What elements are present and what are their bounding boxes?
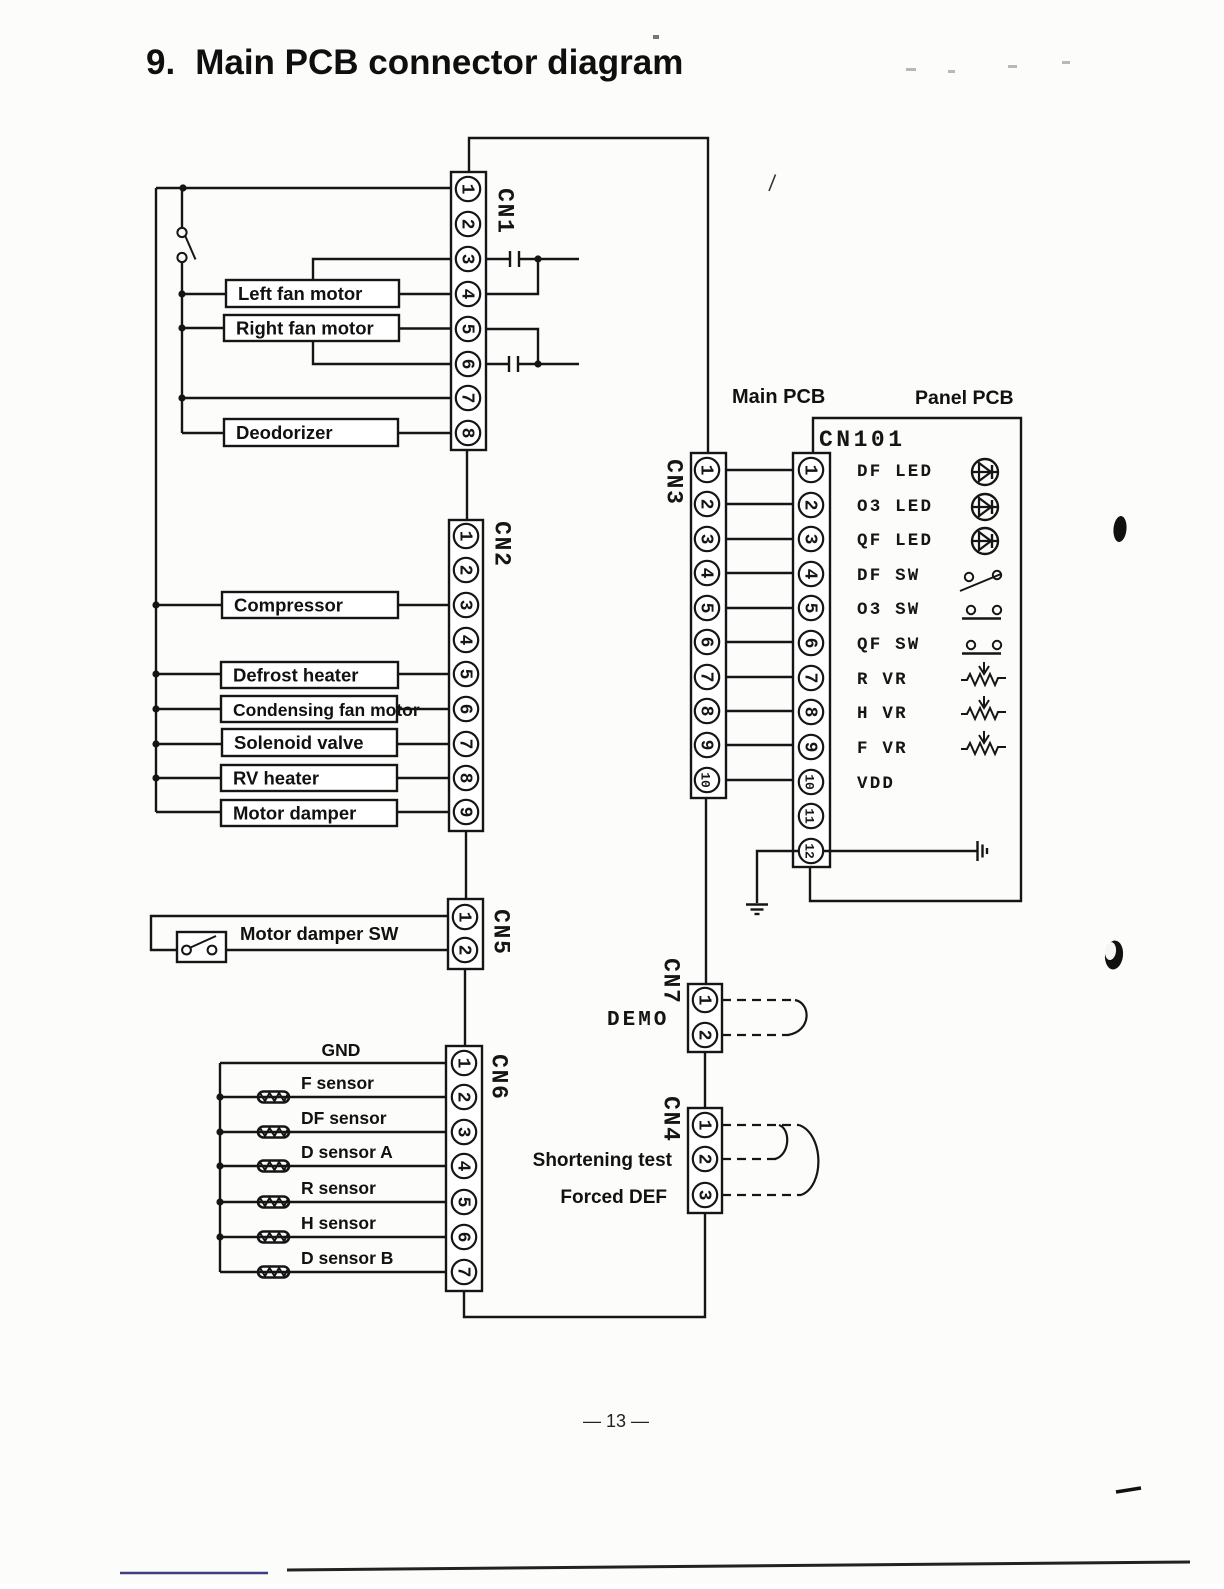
svg-text:1: 1	[694, 995, 714, 1006]
svg-text:N: N	[658, 974, 684, 988]
wire CN3 pin8 to CN101 pin8	[726, 710, 793, 712]
load box Deodorizer	[224, 419, 398, 446]
svg-text:6: 6	[486, 1085, 512, 1099]
wire left bus vertical	[155, 188, 157, 812]
connector CN5	[448, 899, 483, 969]
pin 12 of CN101	[799, 839, 823, 863]
svg-text:3: 3	[453, 1127, 473, 1138]
svg-text:3: 3	[800, 534, 820, 545]
pin 6 of CN3	[695, 630, 719, 654]
svg-text:D sensor A: D sensor A	[301, 1142, 393, 1162]
svg-text:7: 7	[455, 739, 475, 750]
svg-text:RV heater: RV heater	[233, 768, 319, 789]
pin 1 of CN101	[799, 458, 823, 482]
wire CN101 pin12 to right ground	[824, 850, 977, 852]
svg-text:C: C	[486, 1054, 512, 1068]
svg-text:1: 1	[455, 531, 475, 542]
load box Left fan motor	[226, 280, 399, 307]
svg-text:DF SW: DF SW	[857, 566, 921, 586]
svg-text:N: N	[486, 1070, 512, 1084]
wire right fan to CN1 pin5	[399, 327, 451, 329]
wire bus to Defrost heater	[156, 673, 221, 675]
pin 10 of CN101	[799, 770, 823, 794]
capacitor C1	[510, 251, 519, 267]
wire bus to CN1 pin7	[182, 397, 451, 399]
wire bus to DF sensor thermistor	[220, 1131, 446, 1133]
pin 7 of CN6	[452, 1260, 476, 1284]
junction Condensing fan motor tap	[152, 705, 159, 712]
svg-text:9.Main PCB connector diagram: 9.Main PCB connector diagram	[146, 43, 683, 82]
junction pin7 tap	[178, 394, 185, 401]
load box Condensing fan motor	[221, 696, 420, 722]
jumper arc CN4 pins 1-2	[775, 1125, 787, 1159]
junction Compressor tap	[152, 601, 159, 608]
svg-text:H sensor: H sensor	[301, 1213, 376, 1233]
svg-text:3: 3	[457, 254, 477, 265]
wire CN3 pin3 to CN101 pin3	[726, 538, 793, 540]
pin 1 of CN5	[453, 905, 477, 929]
svg-text:— 13 —: — 13 —	[583, 1411, 649, 1431]
svg-text:Main PCB: Main PCB	[732, 386, 825, 408]
wire left fan to CN1 pin4	[399, 293, 451, 295]
wire CN1 pin6 to capacitor C2	[486, 363, 508, 365]
pin 5 of CN3	[695, 596, 719, 620]
label CN4	[658, 1096, 684, 1141]
svg-text:O3 SW: O3 SW	[857, 600, 921, 620]
switch box Motor damper SW	[177, 932, 226, 962]
svg-text:N: N	[661, 475, 687, 489]
svg-text:12: 12	[802, 843, 817, 859]
junction C2 node	[534, 360, 541, 367]
pin 2 of CN2	[454, 558, 478, 582]
scan speck	[653, 35, 1070, 73]
wire bus to RV heater	[156, 777, 221, 779]
pin 5 of CN101	[799, 596, 823, 620]
wire CN2 bottom to CN5 top	[465, 831, 467, 899]
svg-text:C: C	[492, 188, 518, 202]
wire CN3 pin7 to CN101 pin7	[726, 676, 793, 678]
svg-text:10: 10	[802, 774, 817, 790]
pin 2 of CN6	[452, 1085, 476, 1109]
switch QF SW	[962, 641, 1001, 654]
wire bus to Solenoid valve	[156, 743, 222, 745]
svg-text:Solenoid valve: Solenoid valve	[234, 732, 364, 753]
svg-text:3: 3	[455, 600, 475, 611]
load box Right fan motor	[224, 315, 399, 341]
svg-text:2: 2	[694, 1030, 714, 1041]
svg-text:H VR: H VR	[857, 704, 908, 724]
potentiometer F VR	[961, 731, 1006, 754]
pin 4 of CN1	[456, 282, 480, 306]
svg-text:5: 5	[800, 603, 820, 614]
pin 4 of CN101	[799, 562, 823, 586]
connector CN7	[688, 984, 722, 1052]
pin 3 of CN6	[452, 1120, 476, 1144]
svg-text:Shortening test: Shortening test	[533, 1150, 673, 1171]
panel PCB outline	[810, 418, 1021, 901]
pin 9 of CN2	[454, 800, 478, 824]
svg-text:Deodorizer: Deodorizer	[236, 422, 333, 443]
LED QF	[972, 528, 998, 554]
pin 3 of CN4	[693, 1183, 717, 1207]
pin 2 of CN4	[693, 1147, 717, 1171]
label CN1	[492, 188, 518, 233]
jumper arc CN4 pins 1-3	[799, 1125, 818, 1195]
svg-text:6: 6	[457, 359, 477, 370]
wire Condensing fan motor to CN2	[397, 708, 449, 710]
svg-text:C: C	[661, 459, 687, 473]
svg-text:C: C	[658, 958, 684, 972]
svg-text:DEMO: DEMO	[607, 1009, 669, 1032]
svg-text:9: 9	[696, 740, 716, 751]
thermistor D sensor A	[258, 1161, 289, 1172]
wire Defrost heater to CN2	[398, 673, 449, 675]
wire Motor damper to CN2	[397, 811, 449, 813]
wire bus to H sensor thermistor	[220, 1236, 446, 1238]
svg-text:N: N	[488, 925, 514, 939]
svg-text:7: 7	[453, 1267, 473, 1278]
junction H sensor tap	[216, 1233, 223, 1240]
wire bus to Compressor	[156, 604, 222, 606]
jumper arc CN7	[788, 1000, 807, 1035]
svg-text:5: 5	[488, 940, 514, 954]
label CN5	[488, 909, 514, 954]
wire left fan to bus	[182, 293, 226, 295]
wire CN1 bottom to CN2 top	[466, 450, 468, 520]
svg-text:1: 1	[696, 465, 716, 476]
svg-text:N: N	[658, 1112, 684, 1126]
connector CN1	[451, 172, 486, 450]
thermistor R sensor	[258, 1197, 289, 1208]
pin 7 of CN3	[695, 665, 719, 689]
svg-text:QF SW: QF SW	[857, 635, 921, 655]
svg-text:Defrost heater: Defrost heater	[233, 665, 358, 686]
load box Solenoid valve	[222, 729, 397, 756]
svg-text:6: 6	[696, 637, 716, 648]
junction Defrost heater tap	[152, 670, 159, 677]
pin 8 of CN3	[695, 699, 719, 723]
svg-text:CN101: CN101	[819, 427, 906, 453]
pin 1 of CN1	[456, 177, 480, 201]
pin 2 of CN5	[453, 938, 477, 962]
svg-text:4: 4	[455, 635, 475, 646]
pin 2 of CN3	[695, 492, 719, 516]
svg-text:C: C	[488, 909, 514, 923]
svg-text:3: 3	[696, 534, 716, 545]
svg-text:4: 4	[800, 569, 820, 580]
pin 4 of CN6	[452, 1154, 476, 1178]
wire CN101 pin12 to left ground	[757, 851, 799, 903]
wire Solenoid valve to CN2	[397, 743, 449, 745]
junction Solenoid valve tap	[152, 740, 159, 747]
pin 2 of CN101	[799, 493, 823, 517]
connector CN4	[688, 1108, 722, 1213]
wire capacitor C1 to stub	[519, 258, 579, 260]
svg-text:1: 1	[800, 465, 820, 476]
wire bus to D sensor B thermistor	[220, 1271, 446, 1273]
svg-text:4: 4	[453, 1161, 473, 1172]
pin 1 of CN3	[695, 458, 719, 482]
wire bus to F sensor thermistor	[220, 1096, 446, 1098]
wire switch branch upper	[181, 188, 183, 228]
svg-text:Motor damper SW: Motor damper SW	[240, 923, 399, 944]
pin 5 of CN1	[456, 317, 480, 341]
pin 10 of CN3	[695, 768, 719, 792]
wire CN7 pin1 jumper dashed	[722, 999, 796, 1001]
switch door SW	[177, 228, 195, 262]
svg-text:C: C	[658, 1096, 684, 1110]
connector CN6	[446, 1046, 482, 1291]
svg-text:QF LED: QF LED	[857, 531, 933, 551]
svg-text:DF sensor: DF sensor	[301, 1108, 387, 1128]
thermistor DF sensor	[258, 1127, 289, 1138]
svg-text:1: 1	[492, 219, 518, 233]
pin 9 of CN101	[799, 735, 823, 759]
connector CN101	[793, 453, 830, 867]
pin 8 of CN2	[454, 766, 478, 790]
switch O3 SW	[962, 606, 1001, 619]
ground symbol right	[978, 841, 988, 861]
svg-text:6: 6	[800, 638, 820, 649]
junction R sensor tap	[216, 1198, 223, 1205]
svg-text:2: 2	[696, 499, 716, 510]
wire CN6 bottom loop to CN4 bottom	[464, 1213, 705, 1317]
junction D sensor A tap	[216, 1162, 223, 1169]
wire CN4 pin3 jumper dashed	[722, 1194, 801, 1196]
pin 9 of CN3	[695, 733, 719, 757]
capacitor C2	[509, 356, 518, 372]
svg-text:VDD: VDD	[857, 774, 895, 794]
svg-text:8: 8	[696, 706, 716, 717]
wire CN4 pin1 jumper dashed	[722, 1124, 799, 1126]
switch DF SW	[960, 571, 1001, 591]
pin 5 of CN2	[454, 662, 478, 686]
svg-text:2: 2	[455, 565, 475, 576]
pin 3 of CN3	[695, 527, 719, 551]
wire bus to R sensor thermistor	[220, 1201, 446, 1203]
label CN3	[661, 459, 687, 504]
svg-text:O3 LED: O3 LED	[857, 497, 933, 517]
svg-text:R sensor: R sensor	[301, 1178, 376, 1198]
svg-text:GND: GND	[322, 1040, 361, 1060]
junction RV heater tap	[152, 774, 159, 781]
svg-text:1: 1	[453, 1058, 473, 1069]
wire CN3 pin6 to CN101 pin6	[726, 641, 793, 643]
svg-text:5: 5	[453, 1197, 473, 1208]
svg-text:Left fan motor: Left fan motor	[238, 283, 362, 304]
wire switch branch lower	[181, 262, 183, 433]
pin 4 of CN3	[695, 561, 719, 585]
svg-text:Forced DEF: Forced DEF	[560, 1187, 667, 1208]
pin 1 of CN7	[693, 988, 717, 1012]
LED DF	[972, 459, 998, 485]
junction at switch branch	[179, 184, 186, 191]
pin 7 of CN2	[454, 732, 478, 756]
load box RV heater	[221, 765, 397, 791]
wire CN3 pin5 to CN101 pin5	[726, 607, 793, 609]
connector CN2	[449, 520, 483, 831]
pin 6 of CN6	[452, 1225, 476, 1249]
svg-text:R VR: R VR	[857, 670, 908, 690]
wire CN3 pin9 to CN101 pin9	[726, 744, 793, 746]
wire right fan to bus	[182, 327, 224, 329]
pin 8 of CN1	[456, 421, 480, 445]
svg-text:9: 9	[455, 807, 475, 818]
pin 1 of CN6	[452, 1051, 476, 1075]
svg-text:9: 9	[800, 742, 820, 753]
LED O3	[972, 494, 998, 520]
svg-text:7: 7	[696, 672, 716, 683]
wire Compressor to CN2	[398, 604, 449, 606]
svg-text:2: 2	[489, 552, 515, 566]
ground symbol left	[746, 905, 768, 915]
wire capacitor C2 to stub	[518, 363, 579, 365]
wire CN1 pin5 to C2 node	[486, 329, 538, 364]
bottom rule	[287, 1562, 1190, 1570]
wire CN3 pin2 to CN101 pin2	[726, 503, 793, 505]
pin 2 of CN7	[693, 1023, 717, 1047]
load box Defrost heater	[221, 662, 398, 688]
scan blob right lower	[1104, 940, 1125, 971]
pin 7 of CN101	[799, 666, 823, 690]
pin 1 of CN2	[454, 524, 478, 548]
svg-text:Right fan motor: Right fan motor	[236, 318, 374, 339]
svg-text:1: 1	[454, 912, 474, 923]
pin 5 of CN6	[452, 1190, 476, 1214]
pin 11 of CN101	[799, 804, 823, 828]
svg-text:Compressor: Compressor	[234, 595, 343, 616]
svg-text:5: 5	[696, 603, 716, 614]
svg-text:10: 10	[698, 772, 713, 788]
wire CN6 left bus	[219, 1063, 221, 1272]
thermistor F sensor	[258, 1092, 289, 1103]
label CN6	[486, 1054, 512, 1099]
svg-text:F VR: F VR	[857, 739, 908, 759]
scan blob right upper	[1112, 515, 1127, 542]
svg-text:C: C	[489, 521, 515, 535]
svg-text:1: 1	[694, 1120, 714, 1131]
svg-text:F sensor: F sensor	[301, 1073, 374, 1093]
wire bus to Condensing fan motor	[156, 708, 221, 710]
bottom rule blue segment	[120, 1572, 268, 1575]
svg-text:8: 8	[800, 707, 820, 718]
wire CN5 pin1 loop	[151, 916, 448, 950]
wire pin1 supply bus	[156, 187, 451, 189]
svg-text:2: 2	[457, 219, 477, 230]
svg-text:3: 3	[694, 1190, 714, 1201]
svg-text:2: 2	[800, 500, 820, 511]
svg-text:1: 1	[457, 184, 477, 195]
wire CN3 bottom to CN7 top	[705, 798, 707, 984]
junction DF sensor tap	[216, 1128, 223, 1135]
svg-text:7: 7	[457, 393, 477, 404]
wire left fan tap to CN1 pin3	[313, 259, 451, 280]
svg-text:D sensor B: D sensor B	[301, 1248, 393, 1268]
wire CN1 top to CN3 top feed	[469, 138, 708, 453]
svg-text:4: 4	[658, 1127, 684, 1141]
svg-text:Condensing fan motor: Condensing fan motor	[233, 700, 420, 720]
label CN2	[489, 521, 515, 566]
svg-text:2: 2	[453, 1092, 473, 1103]
svg-text:Motor damper: Motor damper	[233, 803, 356, 824]
wire RV heater to CN2	[397, 777, 449, 779]
svg-text:2: 2	[454, 945, 474, 956]
pin 4 of CN2	[454, 628, 478, 652]
svg-text:Panel PCB: Panel PCB	[915, 387, 1014, 409]
pin 6 of CN2	[454, 697, 478, 721]
svg-text:N: N	[492, 204, 518, 218]
junction C1 node	[534, 255, 541, 262]
pin 8 of CN101	[799, 700, 823, 724]
pin 2 of CN1	[456, 212, 480, 236]
svg-text:7: 7	[800, 673, 820, 684]
svg-text:4: 4	[457, 289, 477, 300]
svg-text:6: 6	[455, 704, 475, 715]
svg-text:8: 8	[455, 773, 475, 784]
pin 6 of CN1	[456, 352, 480, 376]
svg-text:8: 8	[457, 428, 477, 439]
wire CN7 pin2 jumper dashed	[722, 1034, 789, 1036]
pin 3 of CN2	[454, 593, 478, 617]
wire switch to CN5 pin2	[226, 949, 448, 951]
pin 1 of CN4	[693, 1113, 717, 1137]
svg-text:5: 5	[457, 324, 477, 335]
pin 7 of CN1	[456, 386, 480, 410]
wire CN5 bottom to CN6 top	[464, 969, 466, 1046]
wire CN7 bottom to CN4 top	[704, 1052, 706, 1108]
svg-text:5: 5	[455, 669, 475, 680]
svg-text:4: 4	[696, 568, 716, 579]
pin 3 of CN101	[799, 527, 823, 551]
wire GND to CN6 pin1	[220, 1062, 446, 1064]
junction right fan tap	[178, 324, 185, 331]
wire C1 node to CN1 pin4	[486, 259, 538, 294]
scan mark slash	[769, 175, 776, 192]
wire CN3 pin4 to CN101 pin4	[726, 572, 793, 574]
potentiometer H VR	[961, 696, 1006, 719]
svg-text:2: 2	[694, 1154, 714, 1165]
wire bus corner to deodorizer	[182, 432, 224, 434]
potentiometer R VR	[961, 662, 1006, 685]
wire right fan tap to CN1 pin6	[313, 341, 451, 364]
scan dash right bottom	[1116, 1488, 1141, 1492]
wire bus to Motor damper	[156, 811, 221, 813]
wire CN3 pin1 to CN101 pin1	[726, 469, 793, 471]
wire deodorizer to CN1 pin8	[398, 432, 451, 434]
svg-text:6: 6	[453, 1232, 473, 1243]
pin 3 of CN1	[456, 247, 480, 271]
connector CN3	[691, 453, 726, 798]
load box Compressor	[222, 592, 398, 618]
junction F sensor tap	[216, 1093, 223, 1100]
thermistor D sensor B	[258, 1267, 289, 1278]
wire CN3 pin10 to CN101 pin10	[726, 779, 793, 781]
label CN7	[658, 958, 684, 1003]
svg-text:11: 11	[802, 808, 817, 824]
wire CN4 pin2 jumper dashed	[722, 1158, 776, 1160]
thermistor H sensor	[258, 1232, 289, 1243]
wire bus to D sensor A thermistor	[220, 1165, 446, 1167]
svg-text:N: N	[489, 537, 515, 551]
pin 6 of CN101	[799, 631, 823, 655]
wire CN1 pin3 to capacitor C1	[486, 258, 509, 260]
svg-text:7: 7	[658, 989, 684, 1003]
svg-text:DF LED: DF LED	[857, 462, 933, 482]
svg-text:3: 3	[661, 490, 687, 504]
load box Motor damper	[221, 800, 397, 826]
junction left fan tap	[178, 290, 185, 297]
